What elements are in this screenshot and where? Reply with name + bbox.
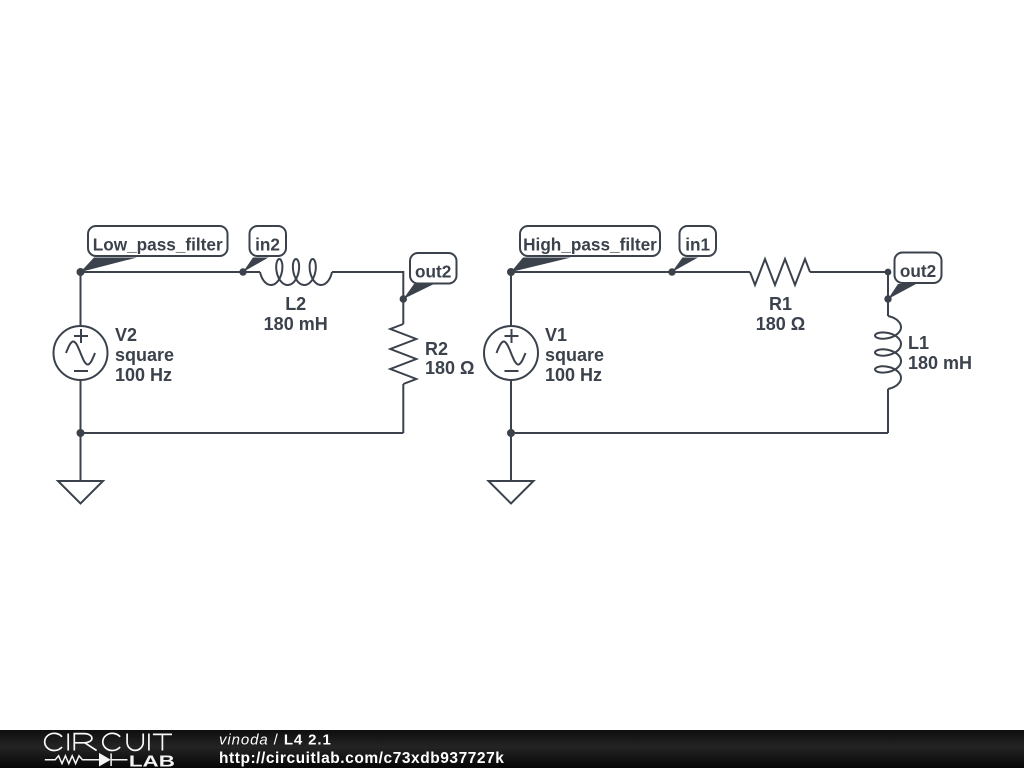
node High_pass_filter — [507, 268, 515, 276]
label R1 values — [756, 294, 805, 334]
svg-text:180 Ω: 180 Ω — [756, 314, 805, 334]
node in2 — [239, 268, 246, 275]
svg-text:in2: in2 — [255, 235, 280, 255]
svg-text:180 Ω: 180 Ω — [425, 358, 474, 378]
wire source V2 top — [80, 272, 82, 326]
svg-text:in1: in1 — [685, 235, 710, 255]
svg-text:V2: V2 — [115, 325, 137, 345]
flag out2 right — [895, 253, 942, 284]
flag in2 — [250, 226, 287, 256]
svg-text:180 mH: 180 mH — [908, 353, 972, 373]
flag pointer out2 left — [403, 284, 434, 299]
svg-text:http://circuitlab.com/c73xdb93: http://circuitlab.com/c73xdb937727k — [219, 750, 504, 767]
flag pointer High_pass_filter — [511, 258, 571, 273]
flag out2 left — [410, 253, 457, 284]
label R2 values — [425, 339, 474, 378]
label L2 values — [264, 294, 328, 334]
flag in1 — [680, 226, 717, 256]
svg-text:R2: R2 — [425, 339, 448, 359]
svg-text:L2: L2 — [285, 294, 306, 314]
node in1 — [668, 268, 675, 275]
svg-text:Low_pass_filter: Low_pass_filter — [93, 235, 223, 255]
node out2 left — [400, 295, 407, 302]
svg-text:LAB: LAB — [129, 753, 175, 768]
label V2 values — [115, 325, 174, 385]
svg-text:out2: out2 — [415, 262, 451, 282]
flag pointer Low_pass_filter — [81, 258, 138, 273]
resistor R2 — [390, 324, 416, 384]
svg-text:100 Hz: 100 Hz — [115, 365, 172, 385]
wire from L2 to corner down to R2 — [332, 272, 403, 324]
logo CIRCUIT text — [45, 733, 172, 750]
svg-text:square: square — [115, 345, 174, 365]
svg-text:L1: L1 — [908, 333, 929, 353]
inductor L2 — [260, 259, 332, 285]
node out2 right — [884, 295, 891, 302]
ground right — [489, 433, 534, 504]
flag High_pass_filter — [520, 226, 660, 256]
ground left — [58, 433, 103, 504]
node junction left bottom — [77, 429, 85, 437]
flag pointer in1 — [672, 258, 698, 273]
flag pointer in2 — [243, 258, 269, 273]
svg-text:vinoda / L4 2.1: vinoda / L4 2.1 — [219, 732, 332, 749]
wire R2 bottom — [402, 384, 404, 433]
wire source V1 bottom — [510, 380, 512, 433]
node corner right — [885, 269, 892, 276]
wire top left circuit — [81, 271, 261, 273]
inductor L1 — [875, 316, 901, 389]
node Low_pass_filter — [77, 268, 85, 276]
voltage source V1 — [484, 326, 538, 380]
flag Low_pass_filter — [88, 226, 228, 256]
svg-text:High_pass_filter: High_pass_filter — [523, 235, 657, 255]
flag pointer out2 right — [888, 284, 916, 299]
wire source V2 bottom — [80, 380, 82, 433]
wire R1 to corner down — [810, 272, 888, 316]
wire L1 bottom — [887, 389, 889, 433]
label V1 values — [545, 325, 604, 385]
label L1 values — [908, 333, 972, 373]
voltage source V2 — [54, 326, 108, 380]
wire bottom left circuit — [81, 432, 404, 434]
svg-text:square: square — [545, 345, 604, 365]
wire bottom right circuit — [511, 432, 888, 434]
node junction right bottom — [507, 429, 515, 437]
logo schematic squiggle — [45, 753, 128, 766]
wire top right circuit — [511, 271, 750, 273]
svg-text:180 mH: 180 mH — [264, 314, 328, 334]
wire source V1 top — [510, 272, 512, 326]
svg-text:R1: R1 — [769, 294, 792, 314]
svg-text:out2: out2 — [900, 261, 936, 281]
svg-text:100 Hz: 100 Hz — [545, 365, 602, 385]
svg-text:V1: V1 — [545, 325, 567, 345]
resistor R1 — [750, 259, 810, 285]
